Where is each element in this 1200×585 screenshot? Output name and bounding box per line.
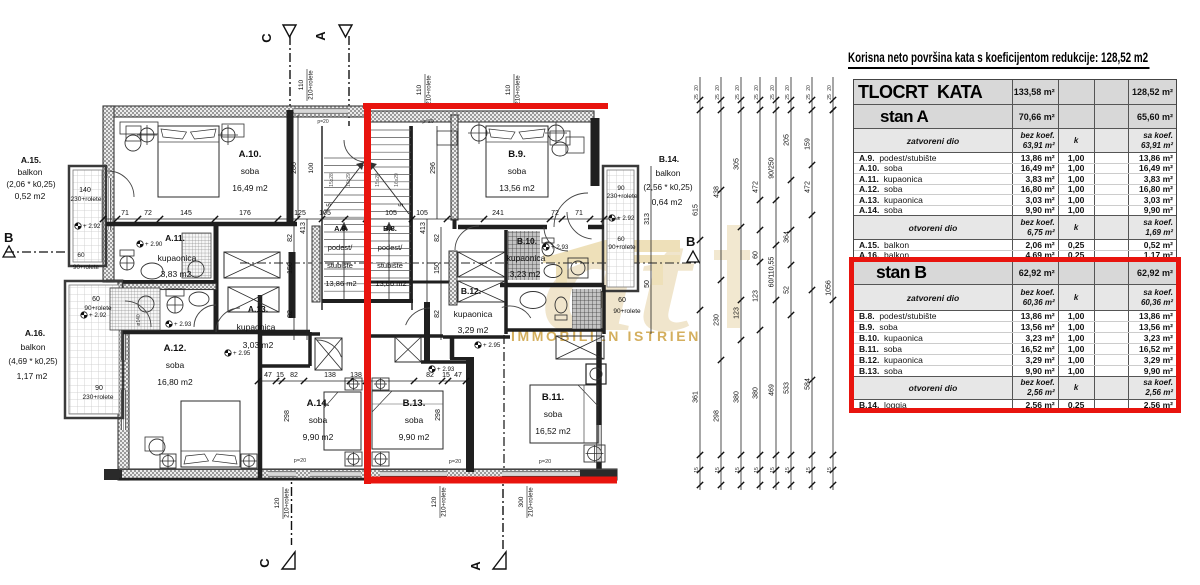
svg-text:380: 380 — [734, 391, 741, 403]
svg-text:A.9.: A.9. — [334, 224, 348, 233]
svg-text:72: 72 — [144, 210, 152, 217]
svg-text:soba: soba — [544, 409, 563, 419]
svg-text:82: 82 — [426, 372, 434, 379]
svg-text:205: 205 — [784, 134, 791, 146]
svg-text:123: 123 — [734, 307, 741, 319]
svg-text:A: A — [313, 31, 328, 41]
svg-text:71: 71 — [121, 210, 129, 217]
svg-text:150: 150 — [434, 262, 441, 274]
svg-text:soba: soba — [241, 166, 260, 176]
svg-text:105: 105 — [385, 210, 397, 217]
svg-text:ø140: ø140 — [136, 314, 142, 326]
svg-text:A.10.: A.10. — [239, 149, 262, 160]
svg-text:20: 20 — [694, 85, 700, 91]
svg-text:90+rolete: 90+rolete — [84, 305, 112, 312]
svg-text:60: 60 — [618, 297, 626, 304]
svg-text:82: 82 — [434, 310, 441, 318]
svg-text:15: 15 — [770, 467, 776, 473]
svg-text:60: 60 — [92, 296, 100, 303]
svg-text:+ 2.93: + 2.93 — [174, 321, 192, 328]
svg-text:230+rolete: 230+rolete — [71, 196, 102, 203]
svg-text:15: 15 — [276, 372, 284, 379]
svg-text:1056: 1056 — [826, 280, 833, 296]
svg-text:60/110,55: 60/110,55 — [769, 257, 776, 288]
svg-text:90+rolete: 90+rolete — [613, 308, 641, 315]
svg-text:150: 150 — [287, 262, 294, 274]
svg-text:20: 20 — [770, 85, 776, 91]
svg-text:438: 438 — [714, 186, 721, 198]
svg-text:(2,06 * k0,25): (2,06 * k0,25) — [6, 180, 55, 189]
svg-text:3,23 m2: 3,23 m2 — [510, 269, 541, 279]
svg-text:15: 15 — [442, 372, 450, 379]
svg-text:+ 2.95: + 2.95 — [483, 342, 501, 349]
svg-text:110: 110 — [298, 79, 305, 90]
svg-text:361: 361 — [693, 391, 700, 403]
svg-text:472: 472 — [753, 181, 760, 193]
svg-text:1,17 m2: 1,17 m2 — [17, 371, 48, 381]
svg-text:159: 159 — [805, 138, 812, 150]
svg-text:15: 15 — [827, 467, 833, 473]
svg-text:413: 413 — [300, 222, 307, 234]
svg-text:25: 25 — [735, 94, 741, 100]
svg-text:230+rolete: 230+rolete — [83, 394, 114, 401]
svg-text:72: 72 — [551, 210, 559, 217]
svg-text:9,90 m2: 9,90 m2 — [303, 432, 334, 442]
svg-text:123: 123 — [753, 290, 760, 302]
svg-text:+ 2.93: + 2.93 — [551, 244, 569, 251]
svg-text:kupaonica: kupaonica — [454, 309, 493, 319]
svg-text:241: 241 — [492, 210, 504, 217]
svg-text:15: 15 — [735, 467, 741, 473]
svg-text:(4,69 * k0,25): (4,69 * k0,25) — [8, 357, 57, 366]
svg-text:13,86 m2: 13,86 m2 — [375, 279, 406, 288]
svg-text:balkon: balkon — [17, 167, 42, 177]
svg-text:soba: soba — [508, 166, 527, 176]
svg-text:15x28: 15x28 — [329, 173, 335, 187]
svg-text:90: 90 — [95, 385, 103, 392]
svg-text:210+rolete: 210+rolete — [528, 487, 535, 517]
svg-text:364: 364 — [784, 231, 791, 243]
svg-text:B.14.: B.14. — [659, 154, 679, 164]
svg-text:A.15.: A.15. — [21, 155, 41, 165]
svg-text:615: 615 — [693, 204, 700, 216]
svg-text:B.9.: B.9. — [508, 149, 525, 160]
svg-text:82: 82 — [434, 234, 441, 242]
svg-text:20: 20 — [754, 85, 760, 91]
svg-text:469: 469 — [769, 384, 776, 396]
svg-text:296: 296 — [430, 162, 437, 174]
svg-text:p=20: p=20 — [539, 459, 551, 465]
svg-text:533: 533 — [784, 382, 791, 394]
svg-text:15x28: 15x28 — [375, 173, 381, 187]
svg-text:210+rolete: 210+rolete — [515, 75, 522, 105]
svg-text:soba: soba — [309, 415, 328, 425]
svg-text:15: 15 — [694, 467, 700, 473]
svg-text:25: 25 — [754, 94, 760, 100]
svg-text:140: 140 — [79, 187, 91, 194]
svg-text:210+rolete: 210+rolete — [308, 70, 315, 100]
svg-text:kupaonica: kupaonica — [237, 322, 276, 332]
svg-text:305: 305 — [734, 158, 741, 170]
svg-text:podest/: podest/ — [328, 243, 354, 252]
svg-text:105: 105 — [416, 210, 428, 217]
svg-text:47: 47 — [454, 372, 462, 379]
svg-text:B.10.: B.10. — [517, 236, 537, 246]
svg-text:25: 25 — [715, 94, 721, 100]
svg-text:soba: soba — [166, 360, 185, 370]
svg-text:298: 298 — [284, 410, 291, 422]
svg-text:90+rolete: 90+rolete — [73, 264, 100, 271]
svg-text:60: 60 — [77, 252, 85, 259]
svg-text:90+rolete: 90+rolete — [608, 244, 636, 251]
svg-text:C: C — [259, 33, 274, 43]
svg-text:B: B — [686, 234, 695, 249]
svg-text:120: 120 — [274, 497, 281, 508]
svg-text:472: 472 — [805, 181, 812, 193]
svg-text:3,29 m2: 3,29 m2 — [458, 325, 489, 335]
svg-text:podest/: podest/ — [378, 243, 404, 252]
svg-text:230+rolete: 230+rolete — [607, 193, 638, 200]
svg-text:B.8.: B.8. — [383, 224, 397, 233]
svg-text:125: 125 — [294, 210, 306, 217]
svg-text:60: 60 — [753, 251, 760, 259]
svg-text:90/250: 90/250 — [769, 157, 776, 179]
svg-text:90: 90 — [617, 185, 625, 192]
svg-text:stubište: stubište — [377, 261, 403, 270]
svg-text:p=20: p=20 — [294, 458, 306, 464]
svg-text:15: 15 — [785, 467, 791, 473]
svg-text:138: 138 — [350, 372, 362, 379]
svg-text:soba: soba — [405, 415, 424, 425]
svg-text:82: 82 — [290, 372, 298, 379]
svg-text:105: 105 — [319, 210, 331, 217]
svg-text:A.16.: A.16. — [25, 328, 45, 338]
svg-text:B.12.: B.12. — [461, 286, 481, 296]
svg-text:13,86 m2: 13,86 m2 — [325, 279, 356, 288]
svg-text:+ 2.95: + 2.95 — [233, 350, 251, 357]
svg-text:71: 71 — [575, 210, 583, 217]
svg-text:B: B — [4, 230, 13, 245]
svg-text:3,83 m2: 3,83 m2 — [161, 269, 192, 279]
svg-text:16x29: 16x29 — [346, 173, 352, 187]
svg-text:kupaonica: kupaonica — [507, 253, 546, 263]
svg-text:B.11.: B.11. — [542, 392, 564, 403]
svg-text:16,80 m2: 16,80 m2 — [157, 377, 193, 387]
svg-text:+ 2.92: + 2.92 — [83, 223, 101, 230]
svg-text:20: 20 — [715, 85, 721, 91]
svg-text:52: 52 — [784, 286, 791, 294]
svg-text:210+rolete: 210+rolete — [284, 488, 291, 518]
svg-text:B.13.: B.13. — [403, 398, 426, 409]
svg-text:300: 300 — [518, 496, 525, 507]
svg-text:A.12.: A.12. — [164, 343, 187, 354]
svg-text:20: 20 — [806, 85, 812, 91]
svg-text:230: 230 — [714, 314, 721, 326]
svg-text:20: 20 — [827, 85, 833, 91]
svg-text:balkon: balkon — [655, 168, 680, 178]
svg-text:20: 20 — [785, 85, 791, 91]
svg-text:3,03 m2: 3,03 m2 — [243, 340, 274, 350]
svg-text:5: 5 — [399, 203, 405, 207]
svg-text:balkon: balkon — [20, 342, 45, 352]
svg-text:47: 47 — [264, 372, 272, 379]
svg-text:kupaonica: kupaonica — [158, 253, 197, 263]
svg-text:16x29: 16x29 — [394, 173, 400, 187]
svg-text:+ 2.90: + 2.90 — [145, 241, 163, 248]
svg-text:A.14.: A.14. — [307, 398, 330, 409]
svg-text:+ 2.92: + 2.92 — [89, 312, 107, 319]
svg-text:176: 176 — [239, 210, 251, 217]
svg-text:A.11.: A.11. — [165, 233, 185, 243]
svg-text:145: 145 — [180, 210, 192, 217]
svg-text:25: 25 — [806, 94, 812, 100]
svg-text:0,64 m2: 0,64 m2 — [652, 197, 683, 207]
svg-text:25: 25 — [694, 94, 700, 100]
svg-text:A: A — [468, 561, 483, 571]
svg-text:380: 380 — [753, 387, 760, 399]
svg-text:313: 313 — [644, 213, 651, 225]
svg-text:C: C — [257, 558, 272, 568]
svg-text:15: 15 — [715, 467, 721, 473]
svg-text:82: 82 — [287, 234, 294, 242]
svg-text:110: 110 — [505, 84, 512, 95]
svg-text:16,52 m2: 16,52 m2 — [535, 426, 571, 436]
svg-text:584: 584 — [805, 378, 812, 390]
svg-text:50: 50 — [644, 280, 651, 288]
svg-text:0,52 m2: 0,52 m2 — [15, 191, 46, 201]
svg-text:p=20: p=20 — [317, 119, 328, 125]
svg-text:120: 120 — [431, 496, 438, 507]
svg-text:25: 25 — [827, 94, 833, 100]
svg-text:A.13.: A.13. — [248, 304, 268, 314]
svg-text:+ 2.92: + 2.92 — [617, 215, 635, 222]
svg-text:100: 100 — [308, 162, 315, 173]
svg-text:286: 286 — [291, 162, 298, 174]
svg-text:25: 25 — [770, 94, 776, 100]
svg-text:25: 25 — [785, 94, 791, 100]
svg-text:16,49 m2: 16,49 m2 — [232, 183, 268, 193]
svg-text:15: 15 — [806, 467, 812, 473]
svg-text:298: 298 — [714, 410, 721, 422]
svg-text:9,90 m2: 9,90 m2 — [399, 432, 430, 442]
svg-text:210+rolete: 210+rolete — [441, 487, 448, 517]
svg-text:p=20: p=20 — [449, 459, 461, 465]
svg-text:stubište: stubište — [327, 261, 353, 270]
svg-text:p=20: p=20 — [422, 119, 433, 125]
svg-text:110: 110 — [416, 84, 423, 95]
svg-text:138: 138 — [324, 372, 336, 379]
svg-text:13,56 m2: 13,56 m2 — [499, 183, 535, 193]
svg-text:20: 20 — [735, 85, 741, 91]
svg-text:60: 60 — [617, 236, 625, 243]
svg-text:15: 15 — [754, 467, 760, 473]
svg-text:82: 82 — [287, 310, 294, 318]
svg-text:413: 413 — [420, 222, 427, 234]
svg-text:298: 298 — [435, 409, 442, 421]
svg-text:210+rolete: 210+rolete — [426, 75, 433, 105]
